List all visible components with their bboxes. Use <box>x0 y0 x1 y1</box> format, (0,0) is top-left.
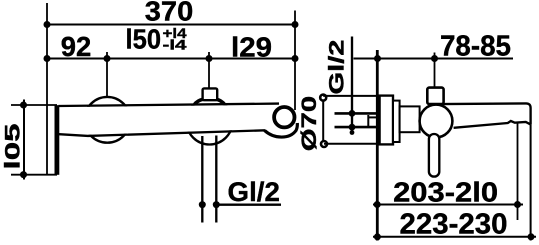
svg-text:Ø70: Ø70 <box>298 96 321 152</box>
Ø70 ring dot bottom <box>321 141 327 147</box>
supply pipe lower (side) <box>335 126 377 129</box>
valve body circle (side) <box>420 105 453 138</box>
spout fill (side) <box>446 104 530 128</box>
svg-text:l29: l29 <box>231 32 272 63</box>
spout hook curl (front) <box>265 123 298 137</box>
pipe connector stub (side) <box>368 116 376 118</box>
neck (side) <box>400 106 420 132</box>
dim dot 370 left <box>44 21 51 28</box>
svg-text:l05: l05 <box>2 123 25 169</box>
dim dot 223-230 left <box>374 233 381 240</box>
supply dot lower (side) <box>349 124 356 131</box>
dim dot 78-85 left <box>374 55 381 62</box>
supply pipe upper (side) <box>335 112 377 115</box>
dim dot 370 right <box>292 21 299 28</box>
extension line x=107 <box>106 52 108 98</box>
Ø70 bottom leader <box>324 143 393 145</box>
G1/2 underline (front) <box>216 204 281 206</box>
dim 105 top leader <box>11 104 57 106</box>
inlet circle right (front view) <box>187 99 233 145</box>
extension line spout end (x=530.5) <box>530 124 532 240</box>
extension line right (x=295) <box>294 11 296 111</box>
pipe dot left <box>199 201 206 208</box>
wall line (side view) <box>376 50 379 241</box>
dim dot 203-210 left <box>374 201 381 208</box>
inlet arc wedge right of square <box>217 99 225 104</box>
inlet arc wedge left of square <box>195 99 203 104</box>
dim 105 vertical line <box>23 100 25 180</box>
cartridge cap (side) <box>427 88 443 105</box>
dim dot at 47 <box>44 55 51 62</box>
dim line 370 <box>47 24 295 26</box>
pipe connector (side) <box>367 115 369 127</box>
dim 105 bottom leader <box>11 174 57 176</box>
wall plate (front view) <box>55 105 60 175</box>
extension line cartridge (x=434.5) <box>434 53 436 89</box>
body top edge <box>59 104 280 106</box>
supply pipe right line (front) <box>215 136 217 223</box>
spout bottom edge (side) <box>454 121 531 128</box>
dim dot 105 bottom <box>20 171 27 178</box>
G1/2 leader end dot <box>350 130 355 135</box>
supply pipe left line (front) <box>201 136 203 223</box>
svg-text:l50: l50 <box>126 23 162 54</box>
dim dot at 209 <box>206 55 213 62</box>
dim dot at 295 <box>292 55 299 62</box>
spout top edge (side) <box>441 103 531 124</box>
svg-text:78-85: 78-85 <box>440 30 511 62</box>
svg-text:203-2l0: 203-2l0 <box>393 176 498 207</box>
extension line left (x=47) <box>46 3 48 175</box>
dim dot 203-210 right <box>514 201 521 208</box>
spout outlet ring (front) <box>274 107 294 127</box>
inlet circle left (front view) <box>84 97 130 143</box>
dim dot 105 top <box>20 102 27 109</box>
dim line 92/150/129 <box>47 58 295 60</box>
dim dot at 107 <box>104 55 111 62</box>
svg-text:92: 92 <box>61 31 92 62</box>
Ø70 top leader <box>323 95 379 97</box>
dim line 203-210 <box>373 204 523 206</box>
pipe dot right <box>213 201 220 208</box>
svg-text:223-230: 223-230 <box>400 209 508 241</box>
svg-text:Gl/2: Gl/2 <box>325 39 348 94</box>
dim dot 78-85 right <box>431 55 438 62</box>
body bar fill (front view) <box>59 105 279 135</box>
extension line x=209 <box>208 52 210 89</box>
Ø70 ring dot top <box>320 95 326 101</box>
extension line spout tip (x=517.5) <box>517 123 519 221</box>
handle lever (side) <box>429 134 439 177</box>
svg-text:-l4: -l4 <box>163 36 187 52</box>
svg-text:Gl/2: Gl/2 <box>228 177 280 207</box>
dim line 223-230 <box>373 236 536 238</box>
inlet fitting square (front) <box>203 88 218 100</box>
body bottom edge <box>59 130 265 136</box>
mounting flange (side) <box>393 101 400 142</box>
dim dot 223-230 right <box>528 233 535 240</box>
dim Ø70 vertical line <box>322 98 324 145</box>
dim line 78-85 <box>354 58 514 60</box>
escutcheon (side) <box>380 96 393 145</box>
G1/2 leader line (side) <box>351 37 353 135</box>
supply dot upper (side) <box>349 110 356 117</box>
